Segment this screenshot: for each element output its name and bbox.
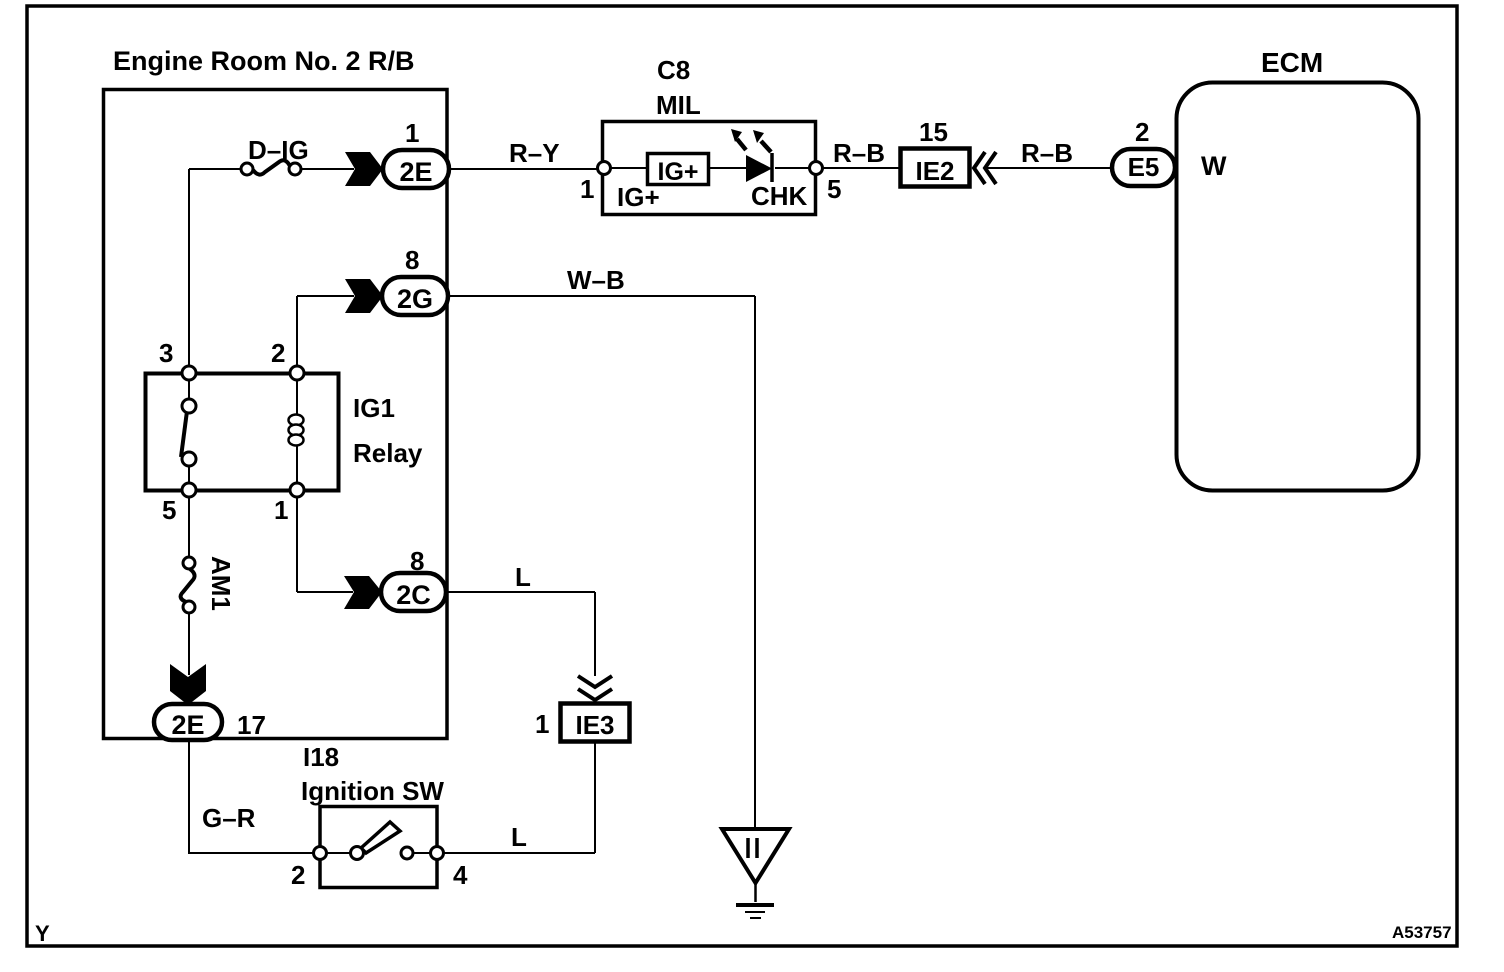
svg-text:D–IG: D–IG <box>248 135 309 165</box>
svg-text:8: 8 <box>410 546 424 576</box>
svg-text:IE2: IE2 <box>915 156 954 186</box>
svg-text:MIL: MIL <box>656 90 701 120</box>
svg-text:CHK: CHK <box>751 181 808 211</box>
svg-text:W–B: W–B <box>567 265 625 295</box>
svg-text:IG+: IG+ <box>617 182 660 212</box>
svg-text:8: 8 <box>405 245 419 275</box>
svg-text:2E: 2E <box>399 157 432 187</box>
svg-text:I18: I18 <box>303 742 339 772</box>
svg-text:15: 15 <box>919 117 948 147</box>
svg-text:2: 2 <box>1135 117 1149 147</box>
svg-text:Ignition SW: Ignition SW <box>301 776 444 806</box>
svg-text:2: 2 <box>271 338 285 368</box>
svg-text:G–R: G–R <box>202 803 256 833</box>
svg-text:E5: E5 <box>1128 152 1160 182</box>
svg-text:2C: 2C <box>396 580 431 610</box>
svg-text:17: 17 <box>237 710 266 740</box>
svg-text:R–Y: R–Y <box>509 138 560 168</box>
svg-text:Engine Room No. 2 R/B: Engine Room No. 2 R/B <box>113 46 415 76</box>
svg-text:Relay: Relay <box>353 438 423 468</box>
svg-text:2E: 2E <box>171 710 204 740</box>
svg-text:1: 1 <box>405 118 419 148</box>
svg-text:IE3: IE3 <box>575 710 614 740</box>
svg-text:4: 4 <box>453 860 468 890</box>
svg-text:R–B: R–B <box>1021 138 1073 168</box>
svg-text:AM1: AM1 <box>206 556 236 611</box>
svg-text:Y: Y <box>35 921 50 946</box>
svg-text:5: 5 <box>162 495 176 525</box>
svg-text:3: 3 <box>159 338 173 368</box>
svg-text:L: L <box>515 562 531 592</box>
svg-text:IG+: IG+ <box>658 158 699 186</box>
svg-text:ECM: ECM <box>1261 47 1323 78</box>
svg-text:1: 1 <box>274 495 288 525</box>
svg-text:IG1: IG1 <box>353 393 395 423</box>
svg-text:C8: C8 <box>657 55 690 85</box>
svg-text:W: W <box>1201 151 1227 181</box>
svg-text:L: L <box>511 822 527 852</box>
svg-text:2G: 2G <box>397 284 433 314</box>
svg-text:2: 2 <box>291 860 305 890</box>
svg-text:5: 5 <box>827 174 841 204</box>
svg-text:R–B: R–B <box>833 138 885 168</box>
svg-text:1: 1 <box>535 709 549 739</box>
svg-text:1: 1 <box>580 174 594 204</box>
svg-text:A53757: A53757 <box>1392 923 1452 942</box>
